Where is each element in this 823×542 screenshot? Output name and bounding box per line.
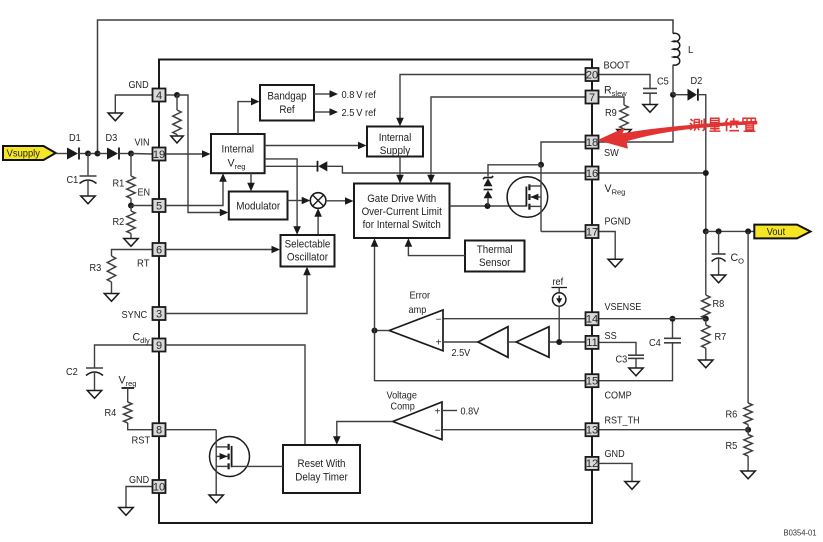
- svg-text:17: 17: [586, 226, 598, 238]
- label D1: [69, 133, 81, 144]
- node C1/D1 junction: [85, 151, 91, 157]
- svg-text:SW: SW: [604, 148, 619, 159]
- svg-text:RST_TH: RST_TH: [605, 416, 640, 427]
- svg-text:VIN: VIN: [135, 137, 150, 148]
- svg-text:R5: R5: [726, 441, 738, 452]
- wire Internal Vreg to oscillator: [265, 159, 301, 235]
- red annotation text 测量位置: [690, 118, 755, 131]
- label RST_TH: [605, 416, 640, 427]
- label PGND: [605, 217, 631, 228]
- wire R4 to pin 8: [128, 423, 153, 430]
- ground at pin 10: [119, 508, 133, 516]
- label SS: [605, 331, 617, 342]
- svg-text:Oscillator: Oscillator: [287, 252, 328, 264]
- node EN junction: [128, 203, 134, 209]
- svg-text:BOOT: BOOT: [604, 61, 631, 72]
- red annotation arrow: [597, 121, 757, 149]
- wire D2 to output node: [699, 95, 706, 232]
- wire pin4 node to modulator input: [177, 95, 228, 216]
- node C4 VSENSE junction: [670, 316, 676, 322]
- label VReg: [605, 183, 626, 197]
- label Vreg supply: [119, 375, 137, 389]
- svg-text:R8: R8: [713, 299, 725, 310]
- pin 6: [153, 243, 166, 256]
- label C2: [66, 367, 78, 378]
- label Cdly: [133, 332, 150, 346]
- wire R5 to ground: [747, 456, 749, 471]
- svg-text:Reset With: Reset With: [298, 458, 346, 470]
- pin 20: [586, 68, 599, 81]
- wire comparator minus to pin 13: [442, 429, 586, 431]
- label D3: [106, 133, 118, 144]
- svg-text:Delay Timer: Delay Timer: [295, 472, 348, 484]
- wire error amp plus to buffer: [443, 341, 478, 343]
- current source ref: [552, 277, 568, 342]
- wire error amp output: [375, 330, 390, 332]
- pin 16: [586, 167, 599, 180]
- svg-text:R9: R9: [605, 108, 617, 119]
- pin 19: [153, 148, 166, 161]
- pin 10: [153, 480, 166, 493]
- block Internal Vreg: [211, 134, 265, 173]
- label COMP: [605, 391, 632, 402]
- resistor R7: [702, 319, 710, 349]
- wire pin 16 VReg line: [599, 172, 706, 174]
- svg-text:GND: GND: [605, 449, 625, 460]
- svg-text:19: 19: [153, 149, 165, 161]
- label C4: [649, 338, 661, 349]
- svg-text:R4: R4: [105, 408, 117, 419]
- label L: [688, 45, 694, 56]
- label R3: [90, 263, 102, 274]
- block Bandgap Ref: [260, 85, 314, 121]
- svg-text:Comp: Comp: [391, 402, 415, 413]
- resistor R3: [107, 256, 115, 282]
- wire top rail from input node up and across to inductor: [98, 20, 674, 154]
- svg-text:+: +: [436, 337, 442, 348]
- svg-text:RST: RST: [132, 436, 151, 447]
- wire SW node to D2: [673, 94, 688, 96]
- svg-text:Sensor: Sensor: [479, 257, 511, 269]
- block Internal Supply: [367, 127, 423, 158]
- wire MOSFET source to pin 17: [541, 231, 586, 233]
- label 2.5 V ref: [342, 108, 376, 119]
- diode D3: [107, 148, 119, 160]
- svg-text:0.8 V ref: 0.8 V ref: [342, 90, 376, 101]
- label 0.8V: [461, 407, 480, 418]
- block Thermal Sensor: [465, 241, 525, 272]
- pin 18: [586, 136, 599, 149]
- svg-text:9: 9: [156, 340, 162, 352]
- svg-text:Supply: Supply: [380, 145, 411, 157]
- label VIN: [135, 137, 150, 148]
- wire Reset to transistor gate: [232, 465, 283, 467]
- wire Modulator to multiplier: [288, 197, 311, 205]
- svg-text:12: 12: [586, 458, 598, 470]
- node Co junction: [716, 228, 722, 234]
- svg-text:R7: R7: [715, 332, 727, 343]
- svg-text:amp: amp: [409, 305, 427, 316]
- capacitor C2: [86, 368, 103, 391]
- svg-text:R3: R3: [90, 263, 102, 274]
- svg-text:R6: R6: [726, 410, 738, 421]
- block Gate Drive: [354, 184, 450, 239]
- label GND pin4: [129, 80, 149, 91]
- wire node to pin 19: [131, 153, 153, 156]
- svg-text:Modulator: Modulator: [236, 201, 280, 213]
- label EN: [138, 188, 151, 199]
- capacitor C1: [80, 154, 97, 197]
- wire node to R8: [705, 231, 707, 295]
- buffer amplifier 2: [516, 327, 549, 358]
- wire VSENSE external: [586, 318, 706, 320]
- svg-text:Internal: Internal: [222, 144, 255, 156]
- wire pin 9 internal to Reset: [166, 345, 306, 445]
- Vout output terminal: [754, 225, 810, 239]
- label Error amp: [409, 291, 431, 317]
- arrow below internal resistor: [171, 135, 183, 144]
- capacitor C5: [643, 89, 657, 105]
- svg-text:Ref: Ref: [279, 104, 295, 116]
- svg-text:+: +: [435, 406, 441, 417]
- svg-text:L: L: [688, 45, 694, 56]
- wire Internal Vreg to Bandgap Ref: [238, 98, 260, 134]
- wire COMP external to C4: [599, 343, 673, 381]
- block Selectable Oscillator: [281, 235, 335, 267]
- IC boundary box: [159, 60, 592, 524]
- wire Bandgap 0.8V ref output: [314, 90, 338, 98]
- wire node to zener top: [488, 165, 541, 177]
- wire node to node: [88, 153, 98, 155]
- node SW external junction: [670, 92, 676, 98]
- svg-text:C5: C5: [657, 77, 669, 88]
- svg-text:C4: C4: [649, 338, 661, 349]
- buffer amplifier 1: [478, 327, 508, 358]
- label SYNC: [122, 310, 148, 321]
- ground below C2: [87, 391, 101, 399]
- label VSENSE: [605, 302, 642, 313]
- wire multiplier to Gate Drive: [326, 197, 354, 205]
- ground below R5: [741, 471, 755, 479]
- capacitor C3: [628, 355, 644, 368]
- node output rail left: [703, 228, 709, 234]
- wire Vsupply to D1: [56, 153, 67, 155]
- transistor Q1 reset: [210, 430, 250, 495]
- wire pin 18 to SW node: [599, 95, 674, 142]
- svg-text:20: 20: [586, 69, 598, 81]
- wire pin 19 to Internal Vreg: [166, 150, 211, 158]
- multiplier symbol: [310, 193, 326, 209]
- label Voltage Comp: [387, 391, 418, 413]
- ground at pin 12: [625, 482, 639, 490]
- label SW: [604, 148, 619, 159]
- internal diode to SW line: [318, 161, 328, 172]
- label B0354-01: [784, 528, 817, 538]
- diode D2: [688, 89, 698, 101]
- wire pin 18 internal: [541, 142, 586, 165]
- wire node to COMP pin 15: [375, 331, 586, 381]
- svg-text:Vsupply: Vsupply: [7, 148, 41, 160]
- ground below Co: [711, 275, 725, 283]
- svg-text:VSENSE: VSENSE: [605, 302, 642, 313]
- pin 15: [586, 374, 599, 387]
- label GND pin12: [605, 449, 625, 460]
- svg-text:C2: C2: [66, 367, 78, 378]
- capacitor Co: [712, 231, 726, 275]
- svg-text:R2: R2: [113, 217, 125, 228]
- svg-text:COMP: COMP: [605, 391, 632, 402]
- svg-text:3: 3: [156, 308, 162, 320]
- node pin4 internal junction: [174, 92, 180, 98]
- ground at pin 17: [608, 259, 622, 267]
- svg-text:EN: EN: [138, 188, 151, 199]
- svg-text:RT: RT: [137, 259, 150, 270]
- wire 0.8V stub: [442, 410, 457, 412]
- node VIN/R1 junction: [128, 151, 134, 157]
- wire output rail: [706, 230, 754, 232]
- label R2: [113, 217, 125, 228]
- svg-text:Selectable: Selectable: [285, 239, 331, 251]
- wire Thermal Sensor to Gate Drive: [405, 238, 465, 255]
- internal pulldown resistor at pin 4: [173, 95, 181, 135]
- svg-text:Error: Error: [410, 291, 431, 302]
- svg-text:4: 4: [156, 90, 162, 102]
- label R1: [113, 179, 125, 190]
- svg-text:C3: C3: [616, 355, 628, 366]
- wire pin 12 to ground: [599, 463, 633, 481]
- svg-text:0.8V: 0.8V: [461, 407, 480, 418]
- wire comparator output to Reset: [333, 422, 393, 445]
- pin 17: [586, 225, 599, 238]
- svg-text:11: 11: [586, 337, 597, 349]
- svg-text:18: 18: [586, 137, 598, 149]
- svg-text:Thermal: Thermal: [477, 244, 513, 256]
- svg-text:16: 16: [586, 168, 598, 180]
- label C3: [616, 355, 628, 366]
- svg-text:6: 6: [156, 244, 162, 256]
- svg-text:8: 8: [156, 425, 162, 437]
- svg-text:ref: ref: [553, 277, 564, 288]
- block Reset With Delay Timer: [283, 445, 360, 493]
- wire pin 7 to R9: [599, 97, 625, 105]
- wire VSENSE line pin 14: [443, 318, 586, 320]
- wire pin 6 to R3: [112, 250, 153, 257]
- pin 7: [586, 91, 599, 104]
- resistor R1: [127, 154, 135, 199]
- node R6 R5 junction: [745, 427, 751, 433]
- inductor L: [673, 33, 680, 94]
- ground below R9: [617, 130, 631, 138]
- label C1: [67, 175, 79, 186]
- svg-text:GND: GND: [129, 80, 149, 91]
- pin 14: [586, 312, 599, 325]
- pin 13: [586, 423, 599, 436]
- zener diode pair: [483, 176, 493, 206]
- svg-text:−: −: [435, 426, 441, 437]
- svg-text:Internal: Internal: [379, 132, 412, 144]
- pin 8: [153, 423, 166, 436]
- wire R7 to ground: [705, 348, 707, 360]
- svg-text:PGND: PGND: [605, 217, 631, 228]
- svg-text:Voltage: Voltage: [387, 391, 418, 402]
- node R8 VSENSE junction: [703, 316, 709, 322]
- node zener to gate line: [485, 203, 491, 209]
- resistor R5: [744, 430, 752, 456]
- pin 5: [153, 199, 166, 212]
- ground below reset transistor: [209, 495, 223, 503]
- svg-text:GND: GND: [129, 475, 149, 486]
- pin 3: [153, 307, 166, 320]
- pin 12: [586, 457, 599, 470]
- wire pin 7 internal to Gate Drive: [427, 97, 585, 183]
- resistor R9: [620, 105, 628, 129]
- pin 9: [153, 339, 166, 352]
- label R8: [713, 299, 725, 310]
- label RT: [137, 259, 150, 270]
- supply rail Vreg above R4: [122, 388, 135, 402]
- label GND pin10: [129, 475, 149, 486]
- pin 4: [153, 89, 166, 102]
- svg-text:15: 15: [586, 376, 598, 388]
- node VReg junction: [703, 170, 709, 176]
- voltage comparator: [393, 402, 442, 440]
- transistor M1 switch: [507, 165, 548, 232]
- wire pin 10 to ground: [126, 487, 153, 508]
- wire BOOT to C5: [599, 75, 651, 89]
- svg-text:SYNC: SYNC: [122, 310, 148, 321]
- wire diode to VReg pin 16 line: [327, 166, 585, 173]
- wire R1 to EN node: [130, 199, 132, 206]
- wire pin 3 to oscillator bottom: [166, 267, 311, 314]
- ground below R3: [104, 294, 118, 302]
- ground below R7: [699, 360, 713, 368]
- label Rslew: [604, 85, 627, 99]
- ground below C1: [81, 196, 95, 204]
- label BOOT: [604, 61, 631, 72]
- wire pin 4 internal to node: [166, 94, 178, 96]
- wire Bandgap 2.5V ref output: [314, 108, 338, 116]
- wire R2 to ground: [130, 234, 132, 239]
- wire D1 to node: [79, 153, 88, 155]
- wire Internal Vreg to Modulator: [247, 173, 255, 191]
- wire pin 6 to oscillator: [166, 246, 281, 254]
- wire Internal Supply to Gate Drive: [396, 157, 404, 184]
- label 0.8 V ref: [342, 90, 376, 101]
- wire node to Gate Drive bottom: [371, 238, 379, 330]
- svg-text:Vout: Vout: [767, 226, 785, 238]
- resistor R4: [124, 402, 132, 423]
- label R4: [105, 408, 117, 419]
- wire pin 5 to Internal Vreg bottom: [166, 173, 227, 205]
- label R7: [715, 332, 727, 343]
- wire BOOT pin 20 to Internal Supply: [396, 75, 585, 127]
- svg-text:D1: D1: [69, 133, 81, 144]
- svg-text:R1: R1: [113, 179, 125, 190]
- svg-text:−: −: [436, 314, 442, 325]
- node SW drain junction: [538, 162, 544, 168]
- svg-text:Gate Drive With: Gate Drive With: [367, 193, 436, 205]
- wire pin 9 to C2: [95, 345, 153, 368]
- svg-text:13: 13: [586, 425, 598, 437]
- wire buffer2 to pin 11: [549, 341, 586, 343]
- pin 11: [586, 336, 599, 349]
- diode D1: [67, 148, 79, 160]
- wire RST_TH external: [599, 429, 749, 431]
- resistor R2: [127, 206, 135, 234]
- label R9: [605, 108, 617, 119]
- wire buffer1 to buffer2: [508, 341, 516, 343]
- node R6 junction: [745, 228, 751, 234]
- svg-text:14: 14: [586, 314, 598, 326]
- svg-text:C1: C1: [67, 175, 79, 186]
- ground below C3: [629, 368, 643, 376]
- svg-text:for Internal Switch: for Internal Switch: [363, 219, 441, 231]
- wire pin 17 to ground: [599, 232, 616, 260]
- node ref to SS junction: [556, 339, 562, 345]
- wire node to D3: [98, 153, 108, 155]
- wire R6 branch: [747, 231, 749, 403]
- Vsupply input terminal: [3, 146, 56, 160]
- ground at pin 4: [108, 113, 122, 121]
- label RST: [132, 436, 151, 447]
- wire oscillator to multiplier: [314, 208, 322, 235]
- label R6: [726, 410, 738, 421]
- svg-text:2.5 V ref: 2.5 V ref: [342, 108, 376, 119]
- label 2.5V: [452, 348, 471, 359]
- error amplifier: [389, 310, 443, 351]
- wire pin 4 to ground: [115, 95, 152, 113]
- svg-text:Bandgap: Bandgap: [267, 91, 306, 103]
- wire EN node to pin 5: [131, 205, 153, 207]
- svg-text:D3: D3: [106, 133, 118, 144]
- label R5: [726, 441, 738, 452]
- label C5: [657, 77, 669, 88]
- svg-text:10: 10: [153, 481, 165, 493]
- wire Internal Vreg to Internal Supply: [265, 142, 367, 150]
- svg-text:5: 5: [156, 200, 162, 212]
- svg-text:B0354-01: B0354-01: [784, 528, 817, 538]
- wire Gate Drive output to MOSFET gate: [450, 205, 527, 207]
- svg-text:Over-Current Limit: Over-Current Limit: [362, 206, 443, 218]
- resistor R6: [744, 403, 752, 425]
- svg-text:2.5V: 2.5V: [452, 348, 471, 359]
- node COMP junction: [372, 328, 378, 334]
- wire R6 to RST_TH node: [747, 425, 749, 430]
- resistor R8: [702, 295, 710, 319]
- node top-rail junction: [95, 151, 101, 157]
- svg-text:SS: SS: [605, 331, 617, 342]
- ground below C5: [643, 105, 657, 113]
- block Modulator: [229, 192, 288, 220]
- wire pin 8 internal to transistor: [166, 429, 217, 431]
- label D2: [691, 76, 703, 87]
- ground below R2: [124, 239, 138, 247]
- svg-text:7: 7: [589, 92, 595, 104]
- label Co: [731, 252, 745, 266]
- wire Internal Vreg to diode: [265, 165, 317, 167]
- wire R3 to ground: [111, 282, 113, 294]
- capacitor C4: [664, 319, 681, 343]
- wire D3 to VIN node: [119, 153, 131, 155]
- wire pin 11 to C3: [599, 342, 637, 355]
- svg-text:D2: D2: [691, 76, 703, 87]
